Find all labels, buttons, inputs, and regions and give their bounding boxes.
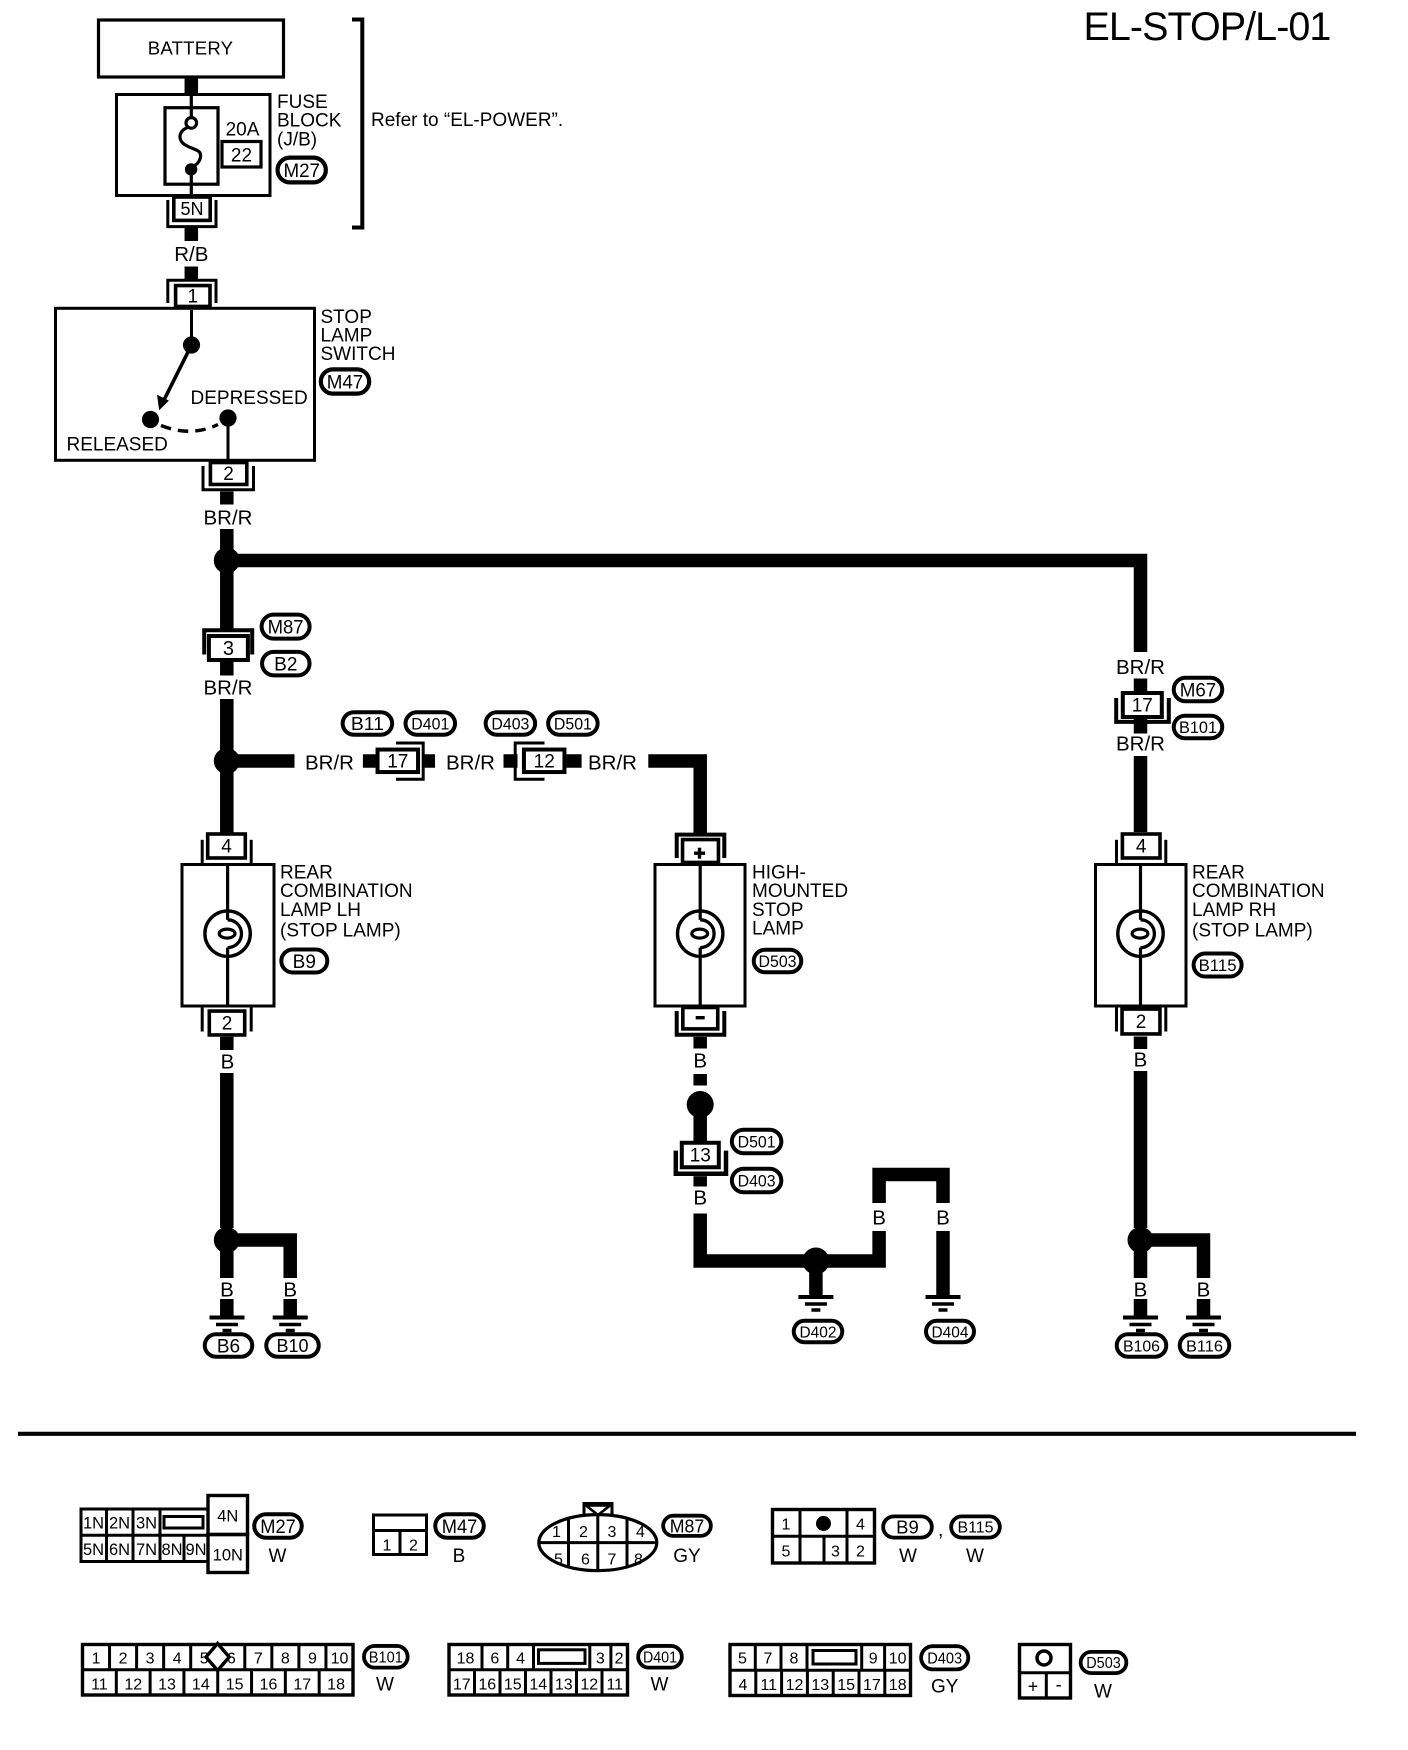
junction node D402	[802, 1248, 829, 1275]
svg-text:2: 2	[222, 1014, 233, 1035]
svg-text:10N: 10N	[213, 1547, 243, 1565]
svg-text:4N: 4N	[217, 1508, 238, 1526]
svg-text:B: B	[936, 1207, 950, 1230]
connector B106 oval	[1117, 1334, 1167, 1357]
svg-text:W: W	[651, 1675, 669, 1696]
stop lamp switch box	[56, 308, 315, 460]
face color W b9	[899, 1546, 917, 1567]
svg-text:5: 5	[554, 1552, 563, 1569]
svg-text:W: W	[899, 1546, 917, 1567]
connector B9 oval bottom	[883, 1516, 932, 1537]
connector D402 oval	[794, 1321, 843, 1343]
svg-text:M27: M27	[283, 160, 320, 182]
svg-text:11: 11	[760, 1677, 777, 1694]
contact RELEASED	[142, 411, 159, 428]
svg-text:1: 1	[383, 1538, 392, 1555]
svg-text:D401: D401	[643, 1650, 677, 1667]
wire label B mid2	[693, 1187, 707, 1210]
svg-text:12: 12	[124, 1677, 142, 1694]
svg-text:8: 8	[281, 1651, 290, 1668]
svg-text:18: 18	[457, 1651, 475, 1668]
connector M87 pinout oval	[663, 1516, 711, 1537]
label REAR COMBINATION LAMP RH	[1192, 863, 1325, 942]
svg-text:5: 5	[738, 1651, 747, 1668]
svg-text:4: 4	[173, 1651, 182, 1668]
svg-text:BATTERY: BATTERY	[148, 38, 233, 59]
wire label BR/R RH1	[1116, 656, 1165, 679]
connector B115 oval bottom	[951, 1516, 1000, 1537]
svg-text:2: 2	[119, 1651, 128, 1668]
connector 13	[676, 1143, 726, 1174]
wire label R/B	[174, 243, 208, 266]
svg-text:M27: M27	[260, 1517, 296, 1538]
connector M47 pinout	[374, 1515, 427, 1555]
svg-text:M67: M67	[1180, 680, 1217, 702]
ground stub B116	[1197, 1299, 1211, 1316]
ground symbol D404	[926, 1297, 961, 1310]
svg-text:R/B: R/B	[174, 243, 208, 266]
wire stub mid2	[693, 1074, 707, 1086]
wire label B RH	[1134, 1049, 1148, 1072]
svg-text:B: B	[872, 1207, 886, 1230]
connector D401 pinout oval	[638, 1646, 682, 1668]
svg-text:BR/R: BR/R	[588, 752, 637, 775]
wire label B mid	[693, 1050, 707, 1073]
wire stub below 13	[693, 1176, 707, 1186]
wire down from junction	[220, 565, 234, 629]
ground symbol D402	[798, 1297, 833, 1310]
svg-text:B2: B2	[274, 654, 297, 675]
svg-text:GY: GY	[931, 1677, 959, 1698]
svg-text:(STOP LAMP): (STOP LAMP)	[1192, 921, 1313, 942]
wire to junction 2	[220, 699, 234, 750]
branch wire to B116 ground	[1146, 1240, 1204, 1278]
connector B9 B115 pinout	[773, 1510, 875, 1564]
svg-text:13: 13	[811, 1677, 829, 1694]
svg-text:13: 13	[555, 1677, 573, 1694]
svg-text:+: +	[1028, 1677, 1039, 1697]
svg-text:W: W	[269, 1546, 287, 1567]
wire inverted U top	[879, 1175, 943, 1204]
svg-text:4: 4	[856, 1517, 865, 1534]
svg-text:BR/R: BR/R	[204, 677, 253, 700]
svg-text:17: 17	[453, 1677, 471, 1694]
svg-text:17: 17	[387, 751, 408, 772]
svg-text:8: 8	[634, 1552, 643, 1569]
svg-text:D501: D501	[738, 1133, 776, 1151]
svg-text:3: 3	[596, 1651, 605, 1668]
wire to junction	[220, 529, 234, 552]
svg-text:15: 15	[504, 1677, 522, 1694]
face color W d401	[651, 1675, 669, 1696]
connector B115 oval	[1194, 954, 1242, 977]
label B leg2	[936, 1207, 950, 1230]
svg-text:B9: B9	[896, 1517, 919, 1538]
connector 2 RH	[1117, 1008, 1166, 1034]
connector M87 pinout	[539, 1504, 657, 1571]
svg-text:15: 15	[837, 1677, 855, 1694]
svg-text:B9: B9	[293, 952, 316, 973]
title EL-STOP/L-01	[1084, 5, 1331, 49]
svg-text:4: 4	[636, 1524, 645, 1541]
svg-text:D401: D401	[411, 715, 449, 733]
fuse number 22	[222, 142, 261, 168]
svg-text:1: 1	[92, 1651, 101, 1668]
branch wire right	[233, 754, 295, 768]
wire below junction LH	[220, 1250, 234, 1278]
svg-text:D501: D501	[554, 715, 592, 733]
connector B116 oval	[1180, 1334, 1230, 1357]
junction node 2	[214, 748, 240, 774]
lamp RH bulb	[1118, 865, 1163, 1007]
wire R/B to connector 1	[185, 267, 199, 281]
ground symbol B10	[273, 1318, 308, 1331]
face color W b101	[376, 1675, 394, 1696]
svg-text:B115: B115	[1199, 957, 1237, 975]
svg-text:D503: D503	[1086, 1655, 1121, 1672]
svg-text:BR/R: BR/R	[1116, 733, 1165, 756]
svg-text:D403: D403	[491, 715, 529, 733]
face color GY m87	[673, 1546, 701, 1567]
wire to connector 13	[693, 1115, 707, 1143]
svg-text:M47: M47	[327, 372, 364, 394]
svg-text:B: B	[453, 1546, 466, 1567]
svg-text:17: 17	[1132, 696, 1153, 717]
connector D503 pinout	[1020, 1645, 1071, 1699]
svg-text:DEPRESSED: DEPRESSED	[191, 388, 308, 409]
dashed travel arc	[161, 425, 218, 432]
label B b116	[1197, 1279, 1211, 1302]
lamp bulb mid	[678, 865, 723, 1007]
junction node	[214, 548, 240, 574]
svg-text:1N: 1N	[83, 1515, 104, 1533]
svg-text:10: 10	[889, 1651, 907, 1668]
svg-text:16: 16	[260, 1677, 278, 1694]
connector 1	[168, 280, 216, 307]
connector B9 oval	[281, 950, 327, 973]
connector B101 pinout	[83, 1644, 354, 1696]
connector D503 oval	[754, 950, 802, 973]
label B b10	[283, 1279, 297, 1302]
switch arm arrow	[157, 345, 192, 410]
junction node mid	[687, 1091, 714, 1118]
face color W b115	[966, 1546, 984, 1567]
ground stub B6	[220, 1299, 234, 1316]
connector 4 LH	[202, 834, 251, 864]
svg-text:B: B	[1134, 1279, 1148, 1302]
svg-text:B115: B115	[958, 1520, 994, 1537]
svg-text:M87: M87	[268, 617, 304, 639]
label FUSE BLOCK (J/B)	[277, 92, 342, 151]
note Refer to EL-POWER	[371, 110, 563, 131]
svg-text:7: 7	[764, 1651, 773, 1668]
svg-text:LAMP LH: LAMP LH	[280, 900, 361, 921]
svg-text:3: 3	[608, 1524, 617, 1541]
connector D403 oval	[486, 712, 536, 735]
svg-text:1: 1	[188, 287, 199, 308]
svg-text:2: 2	[856, 1544, 865, 1561]
wire label BR/R 2	[204, 677, 253, 700]
wire label BR/R 5	[588, 752, 637, 775]
comma	[938, 1519, 944, 1541]
wire stub below connector 3	[220, 662, 234, 676]
svg-text:B: B	[693, 1050, 707, 1073]
connector plus	[677, 835, 725, 863]
svg-text:SWITCH: SWITCH	[321, 344, 396, 365]
connector D503 pinout oval	[1081, 1652, 1127, 1673]
label B b6	[220, 1279, 234, 1302]
svg-text:B10: B10	[277, 1335, 309, 1356]
svg-text:14: 14	[192, 1677, 210, 1694]
svg-text:12: 12	[580, 1677, 598, 1694]
svg-text:14: 14	[529, 1677, 547, 1694]
ground stub B10	[283, 1299, 297, 1316]
svg-text:LAMP RH: LAMP RH	[1192, 900, 1276, 921]
connector D501 oval 2	[732, 1130, 782, 1154]
svg-text:D503: D503	[759, 953, 797, 971]
connector 5N	[168, 197, 216, 227]
svg-text:D403: D403	[927, 1651, 962, 1668]
svg-text:B: B	[1197, 1279, 1211, 1302]
connector B6 oval	[205, 1334, 253, 1357]
battery	[99, 20, 284, 77]
svg-text:B: B	[693, 1187, 707, 1210]
svg-text:2N: 2N	[109, 1515, 130, 1533]
wire stub a	[363, 754, 376, 768]
svg-text:6: 6	[581, 1552, 590, 1569]
ground stub D402	[809, 1272, 823, 1295]
svg-text:18: 18	[327, 1677, 345, 1694]
label B leg1	[872, 1207, 886, 1230]
wire stub pin2 LH	[220, 1037, 234, 1050]
svg-text:13: 13	[158, 1677, 176, 1694]
wire label BR/R RH2	[1116, 733, 1165, 756]
svg-text:(STOP LAMP): (STOP LAMP)	[280, 921, 401, 942]
svg-text:15: 15	[226, 1677, 244, 1694]
svg-text:2: 2	[615, 1651, 624, 1668]
face color W d503	[1094, 1682, 1112, 1703]
svg-text:B11: B11	[351, 713, 384, 734]
wire label B LH	[221, 1051, 235, 1074]
wire junction to right leg	[822, 1231, 879, 1261]
svg-text:13: 13	[690, 1146, 711, 1167]
connector 17 RH	[1116, 693, 1169, 722]
wire battery to fuse block	[185, 77, 199, 95]
connector M87 oval	[262, 615, 310, 639]
connector 2 LH	[202, 1008, 251, 1035]
ground symbol B116	[1186, 1318, 1221, 1331]
svg-text:17: 17	[293, 1677, 311, 1694]
wire stub b	[423, 754, 435, 768]
connector 3	[204, 630, 252, 660]
wire stub minus	[693, 1037, 707, 1049]
svg-text:7: 7	[608, 1552, 617, 1569]
svg-text:2: 2	[1136, 1012, 1147, 1033]
svg-text:B101: B101	[369, 1650, 403, 1667]
svg-text:RELEASED: RELEASED	[67, 435, 168, 456]
svg-text:EL-STOP/L-01: EL-STOP/L-01	[1084, 5, 1331, 49]
connector 4 RH	[1117, 834, 1166, 864]
wire lamp to ground junction mid	[700, 1214, 810, 1262]
connector 17 inline	[378, 743, 424, 779]
svg-text:M47: M47	[442, 1517, 478, 1538]
svg-text:M87: M87	[670, 1516, 705, 1537]
connector B11 oval	[343, 712, 393, 735]
svg-text:5N: 5N	[83, 1541, 104, 1559]
connector M27 oval	[278, 158, 326, 183]
svg-text:B: B	[1134, 1049, 1148, 1072]
connector M47 pinout oval	[435, 1514, 484, 1538]
wire to high-mounted lamp	[648, 761, 700, 833]
svg-text:B: B	[283, 1279, 297, 1302]
svg-text:3: 3	[146, 1651, 155, 1668]
svg-text:7: 7	[254, 1651, 263, 1668]
wire stub pin2 RH	[1134, 1037, 1148, 1050]
svg-text:5: 5	[782, 1544, 791, 1561]
svg-text:BR/R: BR/R	[446, 752, 495, 775]
svg-text:5N: 5N	[180, 199, 203, 219]
rear combination lamp RH box	[1096, 865, 1187, 1007]
face color B m47	[453, 1546, 466, 1567]
svg-text:4: 4	[1136, 837, 1147, 858]
wire stub d	[566, 754, 581, 768]
switch wire in	[190, 310, 193, 344]
lamp LH bulb	[205, 865, 250, 1007]
label RELEASED	[67, 435, 168, 456]
face color GY d403	[931, 1677, 959, 1698]
separator line	[18, 1432, 1356, 1436]
svg-text:BR/R: BR/R	[204, 507, 253, 530]
wire below junction RH	[1134, 1250, 1148, 1278]
svg-text:2: 2	[223, 464, 234, 485]
svg-text:9N: 9N	[185, 1541, 206, 1559]
connector B10 oval	[266, 1334, 319, 1357]
svg-text:6: 6	[490, 1651, 499, 1668]
svg-text:11: 11	[606, 1677, 623, 1694]
connector M27 pinout oval	[254, 1514, 302, 1538]
wire to connector 4 RH	[1134, 756, 1148, 832]
branch wire to B10 ground	[233, 1240, 290, 1278]
svg-text:COMBINATION: COMBINATION	[1192, 881, 1325, 902]
svg-text:BR/R: BR/R	[305, 752, 354, 775]
contact DEPRESSED	[219, 409, 236, 426]
svg-text:4: 4	[738, 1677, 747, 1694]
svg-text:BLOCK: BLOCK	[277, 111, 342, 132]
svg-text:W: W	[1094, 1682, 1112, 1703]
svg-text:LAMP: LAMP	[752, 919, 804, 940]
connector 12 inline	[515, 743, 564, 779]
connector minus	[677, 1008, 725, 1035]
svg-text:D404: D404	[932, 1324, 969, 1341]
svg-text:W: W	[966, 1546, 984, 1567]
svg-text:B6: B6	[217, 1336, 240, 1357]
connector B101 oval	[1174, 716, 1223, 739]
ground stub B106	[1134, 1299, 1148, 1316]
fuse block M27 box	[117, 95, 271, 196]
connector 2	[203, 463, 254, 490]
connector B2 oval	[262, 652, 310, 676]
wire right leg to D404	[936, 1231, 950, 1295]
connector D403 pinout oval	[921, 1646, 968, 1669]
face color W m27	[269, 1546, 287, 1567]
fuse 22 20A	[165, 96, 218, 195]
svg-text:12: 12	[534, 751, 555, 772]
wire label BR/R	[204, 507, 253, 530]
svg-text:B106: B106	[1123, 1338, 1160, 1355]
svg-text:MOUNTED: MOUNTED	[752, 881, 848, 902]
wire label BR/R 4	[446, 752, 495, 775]
label DEPRESSED	[191, 388, 308, 409]
wire label BR/R 3	[305, 752, 354, 775]
svg-text:16: 16	[478, 1677, 496, 1694]
svg-text:D403: D403	[738, 1172, 776, 1190]
svg-text:3: 3	[223, 638, 234, 660]
connector D401 oval	[406, 712, 456, 735]
svg-text:GY: GY	[673, 1546, 701, 1567]
wire to ground junction RH	[1134, 1071, 1148, 1228]
wire 5N to R/B	[185, 228, 199, 241]
connector B101 pinout oval	[364, 1646, 408, 1668]
connector D401 pinout	[449, 1645, 628, 1696]
svg-text:,: ,	[938, 1519, 944, 1541]
fuse rating 20A	[226, 120, 260, 141]
junction node LH ground	[214, 1227, 240, 1253]
switch pivot contact	[183, 336, 200, 353]
wire stub below connector 17 RH	[1134, 716, 1148, 734]
svg-text:W: W	[376, 1675, 394, 1696]
junction node RH ground	[1128, 1227, 1154, 1253]
connector D403 pinout	[730, 1645, 911, 1696]
svg-text:2: 2	[409, 1538, 418, 1555]
wire to ground junction LH	[220, 1073, 234, 1228]
svg-text:BR/R: BR/R	[1116, 656, 1165, 679]
svg-text:17: 17	[863, 1677, 881, 1694]
label STOP LAMP SWITCH	[321, 307, 396, 365]
svg-text:7N: 7N	[136, 1541, 157, 1559]
svg-text:12: 12	[786, 1677, 804, 1694]
svg-text:1: 1	[552, 1524, 561, 1541]
svg-text:3N: 3N	[136, 1515, 157, 1533]
high-mounted stop lamp box	[655, 865, 745, 1007]
svg-text:8: 8	[790, 1651, 799, 1668]
svg-text:B: B	[220, 1279, 234, 1302]
wire stub RH1	[1134, 679, 1148, 692]
svg-text:22: 22	[231, 146, 252, 167]
connector M27 pinout	[81, 1496, 248, 1573]
rear combination lamp LH box	[182, 865, 274, 1007]
connector D404 oval	[926, 1321, 974, 1343]
wire stub c	[504, 754, 518, 768]
svg-text:B101: B101	[1179, 719, 1217, 737]
connector M67 oval	[1174, 678, 1223, 702]
svg-text:B116: B116	[1186, 1338, 1223, 1355]
svg-text:(J/B): (J/B)	[277, 130, 317, 151]
refer bracket	[352, 20, 362, 228]
svg-text:1: 1	[782, 1517, 791, 1534]
svg-text:COMBINATION: COMBINATION	[280, 881, 413, 902]
ground symbol B106	[1123, 1318, 1158, 1331]
svg-text:6N: 6N	[109, 1541, 130, 1559]
label REAR COMBINATION LAMP LH	[280, 863, 413, 942]
svg-text:-: -	[1056, 1675, 1062, 1695]
svg-text:8N: 8N	[161, 1541, 182, 1559]
svg-text:18: 18	[889, 1677, 907, 1694]
connector M47 oval	[321, 369, 369, 393]
wire junction2 down to lamp LH	[220, 771, 234, 833]
label B b106	[1134, 1279, 1148, 1302]
svg-text:10: 10	[331, 1651, 349, 1668]
svg-text:3: 3	[831, 1544, 840, 1561]
